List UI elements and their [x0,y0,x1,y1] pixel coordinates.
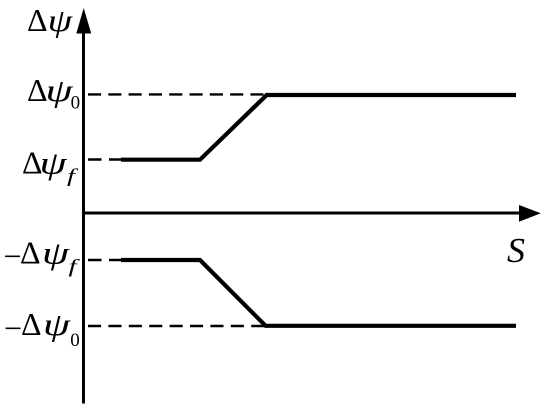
x-axis [82,212,521,215]
y-axis arrowhead [76,8,91,34]
svg-text:ψ: ψ [48,2,74,38]
label minus-delta-psi-0 [4,306,80,351]
svg-text:0: 0 [70,330,80,351]
svg-text:−: − [4,238,22,274]
dashed line at -psi0 level [88,325,265,327]
svg-text:ψ: ψ [43,306,72,342]
svg-text:ψ: ψ [42,235,71,271]
x-axis arrowhead [519,205,541,222]
svg-text:Δ: Δ [21,306,42,342]
label delta-psi-f [22,145,79,187]
label delta-psi-0 [27,72,80,114]
label delta-psi (y-axis title) [27,2,74,38]
svg-text:S: S [507,231,525,270]
label minus-delta-psi-f [4,235,81,278]
svg-text:Δ: Δ [27,2,48,38]
upper curve [121,95,516,160]
svg-text:Δ: Δ [20,235,41,271]
short dashes at -psif level [88,259,121,261]
svg-text:ψ: ψ [40,145,69,181]
lower curve [121,260,516,326]
dashed line at +psi0 level [88,93,264,95]
svg-text:−: − [4,310,22,346]
svg-text:0: 0 [71,93,81,114]
y-axis [82,20,85,404]
svg-text:Δ: Δ [27,72,48,108]
short dashes at +psif level [88,158,121,160]
